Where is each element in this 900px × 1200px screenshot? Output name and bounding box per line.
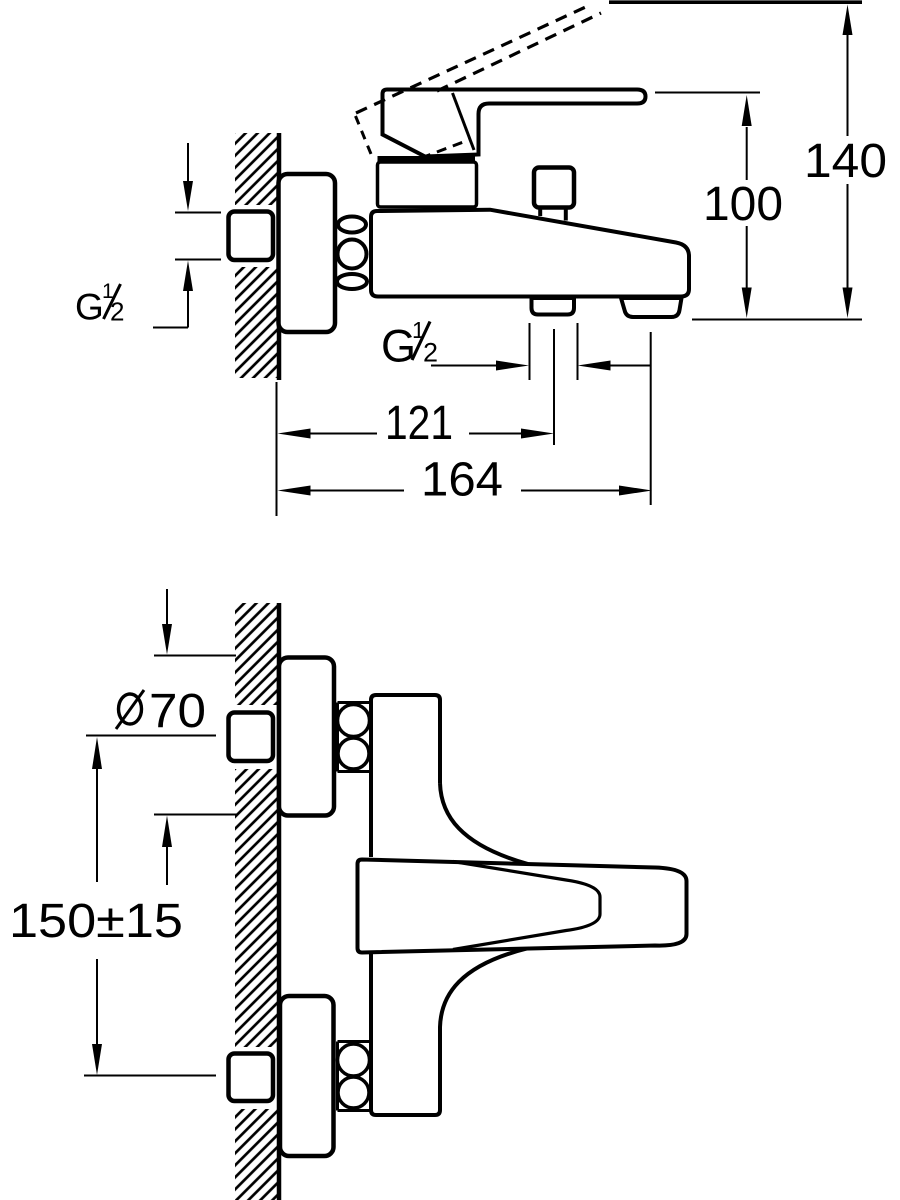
extension line: shower outlet right edge bbox=[577, 323, 579, 380]
svg-text:150±15: 150±15 bbox=[9, 895, 183, 948]
spout inner tongue (front view) bbox=[453, 862, 600, 950]
raised handle dashed outline: lower edge bbox=[437, 13, 601, 91]
top extension line (lever raised level) bbox=[609, 0, 862, 4]
svg-text:164: 164 bbox=[421, 454, 503, 507]
bottom escutcheon flange (front view) bbox=[280, 996, 334, 1156]
label diameter 70 bbox=[119, 694, 142, 724]
handle skirt bottom thick line (side view) bbox=[378, 156, 476, 162]
spout outer shape (front view) bbox=[358, 860, 687, 953]
wall hatch lower section (side view) bbox=[235, 267, 277, 378]
wall surface line (front view) bbox=[277, 603, 282, 1200]
svg-text:G: G bbox=[75, 287, 104, 328]
extension line: spout axis (for 164) bbox=[650, 332, 652, 505]
eccentric union connector (side view): middle sphere bbox=[338, 240, 367, 269]
eccentric union connector (side view): bottom ellipse bbox=[337, 274, 367, 289]
mixer body vertical (front view) bbox=[371, 695, 440, 1115]
lever handle solid (side view) bbox=[383, 90, 646, 157]
svg-text:G: G bbox=[381, 321, 416, 372]
diverter knob (side view) bbox=[534, 168, 574, 208]
extension line top pipe axis (for 150) bbox=[86, 735, 216, 737]
top union nut box (front view) bbox=[338, 703, 372, 772]
dimension 140: vertical line + arrows bbox=[847, 33, 849, 136]
cartridge base under handle (side view) bbox=[378, 162, 477, 207]
wall hatch section below bottom pipe (front view) bbox=[235, 1109, 277, 1200]
extension line escutcheon top bbox=[154, 655, 236, 657]
left pipe dimension: upper arrow (down) bbox=[187, 143, 189, 184]
escutcheon bottom arrow (up) bbox=[162, 816, 172, 848]
wall hatch section between pipes (front view) bbox=[235, 769, 277, 1047]
bottom union nut box (front view) bbox=[338, 1042, 372, 1111]
extension line: wall surface (for 121/164) bbox=[276, 382, 278, 516]
raised handle dashed outline: skirt bottom bbox=[421, 140, 470, 159]
spout outlet below body (side view) bbox=[621, 298, 682, 317]
handle face interior line (side view) bbox=[453, 93, 475, 150]
svg-text:2: 2 bbox=[423, 338, 438, 368]
svg-text:121: 121 bbox=[385, 397, 453, 450]
top union spheres (front view) bbox=[338, 705, 370, 737]
bottom flare curve (front view) bbox=[440, 948, 528, 1027]
mixer body (side view) bbox=[371, 210, 689, 297]
shower hose outlet G1/2 below body (side view) bbox=[532, 298, 575, 315]
bottom extension line (spout underside) bbox=[692, 319, 862, 321]
svg-text:140: 140 bbox=[804, 135, 887, 188]
150 dimension: top arrow (up) bbox=[92, 737, 102, 769]
dimension 121 line + arrows bbox=[278, 429, 311, 439]
bottom union spheres (front view) bbox=[338, 1044, 370, 1076]
G1/2 arrow left (points right to outlet) bbox=[431, 365, 497, 367]
eccentric union connector (side view): top ellipse bbox=[338, 217, 366, 233]
inlet pipe stub G1/2 (side view) bbox=[229, 212, 274, 261]
raised handle dashed outline: upper edge bbox=[356, 5, 591, 114]
diverter knob stem (side view) bbox=[538, 205, 542, 216]
150 dimension: bottom arrow (down) bbox=[96, 959, 98, 1046]
left pipe dimension ticks bbox=[175, 212, 221, 214]
dimension 100: vertical line + arrows bbox=[746, 127, 748, 180]
bottom inlet pipe stub (front view) bbox=[229, 1054, 274, 1102]
wall hatch section above top pipe (front view) bbox=[235, 603, 277, 705]
wall surface line (side view) bbox=[277, 133, 282, 380]
svg-text:70: 70 bbox=[149, 685, 206, 738]
extension line: shower outlet axis (for 121) bbox=[553, 329, 555, 445]
wall hatch upper section (side view) bbox=[235, 133, 277, 205]
escutcheon top arrow (down) bbox=[166, 589, 168, 625]
svg-text:100: 100 bbox=[703, 178, 783, 231]
top flare curve (front view) bbox=[440, 783, 528, 864]
top inlet pipe stub (front view) bbox=[229, 713, 274, 762]
top escutcheon flange (front view) bbox=[279, 658, 334, 816]
extension line lever level (for 100) bbox=[655, 92, 760, 94]
extension line: shower outlet left edge bbox=[529, 323, 531, 380]
extension line escutcheon bottom bbox=[154, 814, 237, 816]
G1/2 arrow right (points left to outlet) bbox=[610, 365, 651, 367]
raised handle dashed outline: left edge bbox=[356, 116, 372, 154]
dimension 164 line + arrows bbox=[278, 486, 311, 496]
left pipe dimension: lower arrow (up) + leader bbox=[183, 261, 193, 292]
wall escutcheon flange (side view) bbox=[279, 174, 336, 332]
svg-text:2: 2 bbox=[110, 297, 124, 327]
extension line bottom pipe axis bbox=[84, 1075, 216, 1077]
